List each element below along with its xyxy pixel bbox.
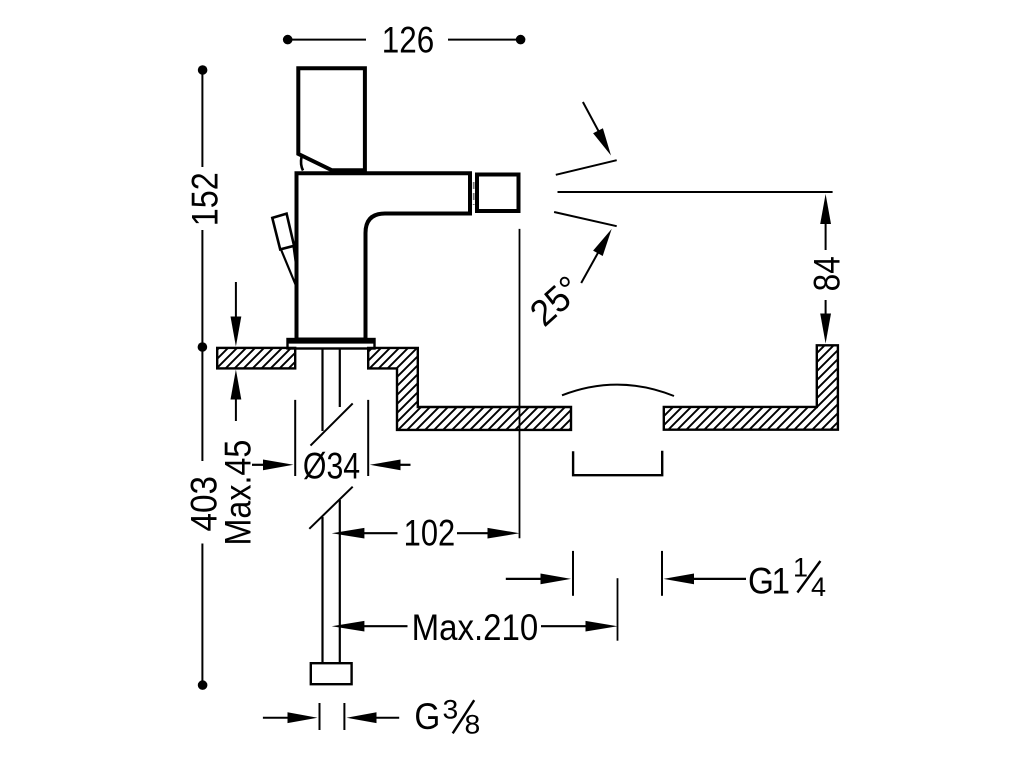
G 3/8 right extension line <box>343 703 345 730</box>
water surface arc <box>562 385 674 396</box>
102 left arrowhead <box>332 528 365 539</box>
supply pipe left line lower <box>321 517 323 663</box>
lever neck right line <box>294 247 297 268</box>
svg-text:1: 1 <box>772 561 791 602</box>
Max.210 right tail line <box>541 625 587 627</box>
G1 1/4 fraction slash <box>797 561 820 593</box>
drain width left extension line <box>572 551 574 596</box>
25deg lower arrowhead <box>593 229 612 256</box>
countertop left piece <box>217 348 295 369</box>
dimension 126 right dot <box>516 35 526 45</box>
pipe break slash 1 <box>311 403 353 445</box>
25deg upper arrowhead <box>593 128 611 155</box>
84 upper tail line <box>825 221 827 250</box>
svg-text:3: 3 <box>443 694 459 724</box>
svg-text:G: G <box>414 697 440 738</box>
G 3/8 left arrowhead <box>288 712 318 723</box>
faucet handle <box>298 68 365 170</box>
G 3/8 right tail line <box>374 717 399 719</box>
Max.45 upper arrowhead <box>231 317 242 347</box>
dia34 right extension line <box>367 400 369 476</box>
dimension 126 dim line left segment <box>288 39 366 41</box>
G 3/8 fraction slash <box>453 700 475 733</box>
left dim line segment below counter dot <box>201 347 203 461</box>
svg-text:G: G <box>748 561 774 602</box>
25deg upper arrow line <box>583 102 599 132</box>
base flange <box>288 339 375 349</box>
25deg center line <box>558 191 833 193</box>
84 lower arrowhead <box>820 314 831 344</box>
drain width right extension line <box>661 551 663 596</box>
102 left tail line <box>363 532 398 534</box>
25deg upper leg <box>556 160 617 175</box>
Max.45 upper arrow line <box>235 282 237 320</box>
left dim line segment below 403 <box>201 544 203 686</box>
lever neck left line <box>281 250 296 285</box>
25deg lower arrow line <box>581 251 599 283</box>
svg-text:Ø34: Ø34 <box>303 446 360 488</box>
Max.210 right arrowhead <box>586 621 618 632</box>
Max.45 lower arrow line <box>235 396 237 421</box>
countertop middle piece <box>368 348 571 430</box>
left dim line segment above 152 <box>201 70 203 167</box>
drain width right tail line <box>692 578 746 580</box>
pipe break slash 2 <box>309 487 352 529</box>
drain width right arrowhead <box>664 574 695 585</box>
svg-text:1: 1 <box>793 553 808 583</box>
svg-text:Max.45: Max.45 <box>219 440 260 546</box>
G 3/8 left extension line <box>319 703 321 730</box>
dia34 right arrow tail <box>398 464 411 466</box>
supply pipe left line upper <box>321 349 323 432</box>
spout tip <box>477 175 519 212</box>
dia34 right arrowhead <box>370 460 401 471</box>
G 3/8 left tail line <box>263 717 291 719</box>
lever handle <box>272 214 294 250</box>
Max.210 left tail line <box>363 625 408 627</box>
dia34 left arrow tail <box>252 464 266 466</box>
left dim line segment between 152 and counter dot <box>201 230 203 347</box>
supply pipe right line lower <box>339 500 341 663</box>
dimension 126 dim line right segment <box>448 39 520 41</box>
handle base arc <box>301 157 303 171</box>
left dim bottom dot <box>198 680 208 690</box>
svg-text:152: 152 <box>186 172 226 226</box>
dia34 left arrowhead <box>263 460 294 471</box>
drain width left tail line <box>506 578 542 580</box>
base flange thick top edge <box>287 339 376 344</box>
left dim top dot <box>198 65 208 75</box>
Max.210 left arrowhead <box>332 621 365 632</box>
supply pipe right line upper <box>339 349 341 408</box>
25deg lower leg <box>554 212 617 226</box>
84 lower tail line <box>825 300 827 317</box>
svg-text:126: 126 <box>382 20 434 61</box>
bidet right wall piece <box>664 345 838 429</box>
faucet body <box>297 173 471 339</box>
drain width left arrowhead <box>541 574 572 585</box>
drain outline <box>573 451 662 475</box>
Max.45 lower arrowhead <box>231 370 242 400</box>
aerator line in gap <box>473 182 475 205</box>
84 upper arrowhead <box>820 194 831 224</box>
102 right arrowhead <box>488 528 520 539</box>
102 right extension line <box>519 229 521 538</box>
left dim middle dot <box>198 342 208 352</box>
dia34 left extension line <box>294 400 296 476</box>
G 3/8 right arrowhead <box>347 712 377 723</box>
Max.210 right extension line <box>617 578 619 641</box>
svg-text:8: 8 <box>465 709 481 739</box>
inlet nut <box>311 663 352 684</box>
102 right tail line <box>457 532 489 534</box>
body top edge overdraw <box>297 338 366 341</box>
svg-text:Max.210: Max.210 <box>412 607 539 648</box>
svg-text:84: 84 <box>807 256 848 291</box>
svg-text:102: 102 <box>404 513 456 554</box>
svg-text:4: 4 <box>811 572 826 602</box>
dimension 126 left dot <box>283 35 293 45</box>
